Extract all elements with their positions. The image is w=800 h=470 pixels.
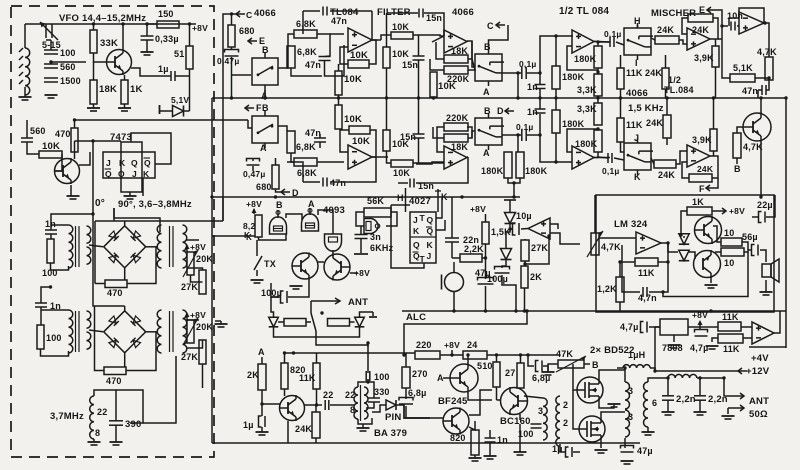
- label B (4093): [276, 200, 283, 210]
- resistor 150: [157, 9, 179, 28]
- mixer1 coupled winding upper: [87, 226, 91, 243]
- label 1u (driver): [243, 420, 254, 430]
- svg-text:1µH: 1µH: [628, 350, 645, 360]
- wire 10 join: [742, 242, 748, 252]
- junction dot 71: [720, 24, 723, 27]
- analog switch B/C (4066): [475, 49, 504, 86]
- ground 2,2n 2: [694, 412, 707, 415]
- svg-text:5,1V: 5,1V: [171, 95, 189, 105]
- label 50 Ohm: [749, 409, 768, 420]
- junction dot 54: [666, 241, 669, 244]
- inductor 1uH: [623, 365, 650, 368]
- wire relay top right: [360, 312, 369, 317]
- wire 56u out: [760, 250, 766, 262]
- label 6KHz: [370, 243, 394, 253]
- junction dot 12: [712, 96, 715, 99]
- svg-text:J: J: [106, 158, 111, 168]
- wire ring2 out: [146, 331, 158, 333]
- label 8 (tank): [95, 428, 100, 438]
- wire 330 btm: [366, 402, 374, 408]
- wire 0,1u mb2: [614, 158, 624, 160]
- wire 10Kv int top: [386, 35, 388, 47]
- wire op1 out to 10K: [381, 35, 391, 40]
- junction dot 58: [759, 96, 762, 99]
- transistor buffer: [55, 158, 80, 184]
- ground bar zener: [159, 105, 161, 114]
- junction dot 42: [315, 403, 318, 406]
- svg-text:6KHz: 6KHz: [370, 243, 394, 253]
- svg-text:10K: 10K: [344, 114, 362, 125]
- capacitor 2,2n (1): [662, 396, 674, 400]
- capacitor 560 (VFO): [44, 64, 58, 68]
- wire cap stack: [50, 40, 52, 50]
- wire 180K top: [555, 36, 557, 66]
- resistor 470 (buffer): [55, 128, 78, 152]
- svg-text:Q: Q: [118, 169, 125, 179]
- label 4066 (mischer): [626, 88, 648, 99]
- junction dot 57: [709, 309, 712, 312]
- wire meter out: [774, 311, 780, 333]
- capacitor 15n shunt lo: [413, 134, 425, 138]
- capacitor 100 (bc): [531, 424, 542, 428]
- op-amp LM324 power: [636, 232, 661, 254]
- arrow F ctl (mischer): [706, 185, 715, 191]
- svg-text:K: K: [427, 240, 434, 250]
- wire 24K drv btm: [315, 438, 317, 443]
- label 100 (bc): [518, 429, 534, 439]
- svg-text:4,7K: 4,7K: [743, 142, 763, 152]
- capacitor 100u (alc): [495, 267, 510, 274]
- svg-text:1K: 1K: [692, 197, 704, 207]
- svg-text:6,8µ: 6,8µ: [408, 388, 427, 398]
- wire ring2 btm stub: [124, 353, 126, 367]
- wire amp3 out: [594, 41, 610, 44]
- svg-text:24K: 24K: [646, 118, 663, 128]
- capacitor 4,7u (reg out): [695, 330, 708, 337]
- label 1n (mixer2): [50, 301, 61, 311]
- svg-text:4,7n: 4,7n: [638, 293, 657, 303]
- wire 27K lm: [524, 239, 526, 240]
- label A (sw BC): [483, 87, 490, 97]
- resistor 11K (driver): [299, 363, 320, 389]
- svg-text:470: 470: [106, 376, 122, 386]
- wire bias chain: [683, 236, 685, 238]
- junction dot 59: [767, 76, 770, 79]
- overline Qbar: [144, 157, 151, 159]
- wire 2,2n2: [699, 378, 701, 396]
- wire int node: [413, 35, 444, 36]
- svg-text:220K: 220K: [446, 113, 469, 123]
- label I below H: [635, 58, 638, 68]
- label 1/2 TL084 (top): [559, 6, 609, 17]
- resistor 10K v (op1): [335, 71, 362, 95]
- pin Q 4027: [427, 215, 434, 225]
- wire gate wiring1: [259, 234, 287, 240]
- label 4,7u out: [690, 343, 709, 353]
- wire 24K to op: [679, 40, 687, 44]
- wire 47n bot2: [319, 142, 321, 148]
- capacitor 47u (fet): [621, 446, 634, 453]
- resistor 24K v (mischer a): [645, 68, 669, 89]
- junction dot 70: [763, 21, 766, 24]
- arrow E: [248, 38, 257, 44]
- svg-text:K: K: [119, 158, 126, 168]
- junction dot 67: [73, 118, 76, 121]
- wire 0,47-680 join: [252, 166, 254, 171]
- wire mixer2 tap: [89, 330, 103, 332]
- wire swE out: [278, 46, 288, 68]
- wire +4V box bottom: [749, 346, 786, 348]
- svg-text:56K: 56K: [367, 196, 384, 206]
- audio ground bus: [402, 310, 786, 312]
- wire 220K right: [468, 59, 475, 70]
- wire K line: [212, 235, 248, 237]
- arrow D: [281, 189, 290, 195]
- wire 33K bottom to base: [94, 53, 108, 62]
- wire 15n shunt lo v: [418, 98, 420, 134]
- wire 1u drv: [560, 444, 565, 452]
- svg-text:PIN: PIN: [385, 412, 401, 423]
- wire BA379 gnd: [362, 424, 364, 428]
- wire 1,2K top: [619, 262, 621, 277]
- wire 11K to op2: [743, 337, 752, 339]
- wire 56K loop1: [356, 212, 364, 226]
- capacitor 47n fb (top): [323, 7, 327, 16]
- svg-text:J: J: [427, 251, 432, 261]
- wire 2K btm: [524, 288, 526, 311]
- transistor audio NPN: [695, 216, 722, 244]
- wire 90deg to LO: [113, 208, 115, 221]
- label C (top left): [246, 10, 252, 20]
- wire op3 out: [372, 156, 388, 158]
- relay coil left: [284, 319, 306, 327]
- label BF245: [438, 396, 468, 407]
- ground 7473: [124, 196, 137, 199]
- resistor 680 (E): [228, 25, 255, 47]
- svg-text:BA 379: BA 379: [374, 428, 407, 439]
- ant gnd stub: [728, 408, 735, 414]
- wire 180K to bus: [513, 183, 515, 197]
- label D: [292, 188, 299, 198]
- svg-text:24K: 24K: [295, 424, 312, 434]
- junction dot 38: [519, 353, 522, 356]
- wire 1u gnd: [261, 427, 263, 432]
- svg-text:15n: 15n: [400, 132, 416, 142]
- wire 0,1u bot junction: [517, 135, 519, 152]
- BA379 coil pri: [354, 387, 358, 419]
- junction dot 68: [91, 212, 94, 215]
- label 6,8u gate: [408, 388, 427, 398]
- svg-text:A: A: [437, 373, 444, 383]
- svg-text:2: 2: [563, 400, 568, 410]
- svg-text:B: B: [276, 200, 283, 210]
- svg-text:150: 150: [158, 9, 174, 19]
- op-amp filter lower-right: [444, 146, 467, 169]
- svg-text:K: K: [634, 172, 641, 182]
- wire lm1 to vol: [550, 233, 580, 244]
- BA379 coil sec: [364, 387, 368, 419]
- svg-text:+4V: +4V: [751, 353, 769, 364]
- junction dot 45: [484, 256, 487, 259]
- wire 820 btm: [474, 455, 476, 458]
- resistor 11K (meter bot): [718, 334, 743, 354]
- junction dot 15: [274, 195, 277, 198]
- wire tank2 loop btm: [41, 349, 69, 356]
- svg-text:180K: 180K: [562, 72, 585, 82]
- gate A stem: [308, 208, 312, 215]
- wire B bias: [584, 363, 590, 365]
- wire tank to mixers: [143, 390, 176, 423]
- wire 10Kv lower: [338, 98, 340, 105]
- label 10n: [727, 11, 743, 21]
- wire tx pair: [318, 261, 324, 263]
- wire 6,8u gate btm: [406, 406, 430, 418]
- label BD522 part: [0, 0, 1, 1]
- wire 470m1 right: [127, 248, 156, 284]
- pin T2 4027: [420, 254, 426, 264]
- wire amp3 fb btm: [597, 68, 599, 74]
- wire 22u leads: [752, 216, 758, 218]
- wire 6,8K bot join: [291, 153, 294, 162]
- junction dot 49: [523, 309, 526, 312]
- label A (txd): [437, 373, 444, 383]
- mixer2 coupled winding upper: [87, 311, 91, 328]
- wire A emitter down: [468, 392, 492, 400]
- svg-text:BC160: BC160: [500, 416, 531, 427]
- junction dot 25: [554, 34, 557, 37]
- label A (driver): [258, 347, 265, 357]
- svg-text:TX: TX: [264, 259, 276, 269]
- wire 3,3K bot top: [597, 98, 599, 103]
- label 2b: [563, 418, 568, 428]
- ground 820: [469, 458, 482, 461]
- wire 27K fb: [525, 236, 549, 264]
- wire tank2 top: [41, 309, 69, 311]
- capacitor 47n (agc): [762, 85, 766, 95]
- label PIN: [385, 412, 401, 423]
- label 1500: [60, 76, 81, 86]
- label H ctl: [634, 16, 641, 26]
- wire node to opamp: [325, 45, 345, 76]
- junction dot 7: [538, 96, 541, 99]
- junction dot 50: [514, 309, 517, 312]
- resistor 27 (txd): [505, 363, 524, 388]
- junction dot 2: [337, 96, 340, 99]
- wire 1uH right: [650, 368, 655, 371]
- label A (sw BD): [483, 148, 490, 158]
- junction dot 20: [145, 22, 148, 25]
- label 6,8u txd: [532, 373, 551, 383]
- junction dot 17: [460, 195, 463, 198]
- wire fb bot left: [287, 162, 303, 182]
- resistor 3,9K v (mischer top): [694, 46, 719, 67]
- capacitor 0,1u (bot): [522, 129, 526, 141]
- wire 20K m1: [191, 275, 203, 282]
- wire 2K btm: [261, 390, 263, 416]
- resistor 11K v (mischer): [617, 68, 643, 89]
- wire 24K mb2: [666, 138, 668, 145]
- pot 20K (mixer2): [183, 318, 198, 345]
- svg-text:15n: 15n: [426, 13, 442, 23]
- wire 18K loop: [436, 42, 444, 59]
- wire op3 wiring: [317, 161, 344, 163]
- mixer2 out core: [170, 311, 174, 352]
- wire 10 bot: [715, 251, 721, 253]
- wire m2 out top: [187, 319, 200, 321]
- NAND gate C (4093): [325, 234, 342, 251]
- arrow ANT: [311, 298, 340, 304]
- resistor 18K (top): [444, 46, 468, 63]
- wire agc tr c: [760, 98, 762, 113]
- wire signal down lo: [540, 135, 572, 162]
- wire 24K mb: [666, 98, 668, 115]
- wire K resistor: [248, 235, 255, 237]
- label 1n bf: [497, 435, 508, 445]
- label A (4093): [308, 199, 315, 209]
- wire txd rail seg: [284, 352, 415, 354]
- label 100u alc: [487, 274, 508, 284]
- switch TX: [254, 252, 262, 276]
- gnd lead m2: [215, 321, 221, 324]
- wire op2 in: [432, 36, 444, 42]
- label 6 out: [652, 398, 657, 408]
- label +8V mixer2: [190, 310, 206, 320]
- svg-text:47µ: 47µ: [637, 446, 653, 456]
- junction dot 1: [263, 96, 266, 99]
- junction dot 3: [385, 96, 388, 99]
- wire 15n fb lo: [398, 182, 408, 184]
- junction dot 39: [526, 353, 529, 356]
- label 3,7MHz: [50, 411, 84, 422]
- wire 7473 left feed: [75, 140, 122, 142]
- wire coil leads: [278, 321, 284, 323]
- label 22n: [463, 235, 479, 245]
- label 4,7n: [638, 293, 657, 303]
- label 0,47u (E): [217, 56, 239, 66]
- resistor 10K h (interstage lo): [391, 160, 413, 178]
- label 4066 (top left): [254, 8, 276, 19]
- ground bc160: [514, 452, 527, 455]
- svg-text:390: 390: [125, 419, 141, 430]
- wire 22 to tr: [330, 404, 355, 406]
- svg-text:11K: 11K: [626, 68, 643, 78]
- resistor 24K (mischer in top): [655, 25, 679, 44]
- wire 3n top: [360, 226, 362, 234]
- wire +8V micamp: [485, 214, 487, 222]
- wire 0,33u top: [146, 24, 148, 36]
- junction dot 69: [49, 285, 52, 288]
- ground 47u fet: [621, 461, 634, 464]
- mixer1 secondary coil: [183, 225, 187, 268]
- resistor 18K: [90, 80, 117, 104]
- wire 24K mb to op: [676, 151, 687, 164]
- label 100u (tx): [261, 288, 282, 298]
- label A (sw F): [260, 143, 267, 153]
- wire 4,7K B top: [737, 127, 743, 133]
- wire bc160 e: [519, 414, 521, 420]
- wire 10Kv op2: [433, 97, 435, 98]
- junction dot 21: [188, 22, 191, 25]
- junction dot 52: [452, 309, 455, 312]
- resistor 10 (top): [721, 228, 742, 246]
- arrow C (4066): [236, 11, 245, 17]
- wire gate down: [332, 250, 334, 256]
- wire VFO top rail: [25, 23, 181, 25]
- svg-text:24K: 24K: [658, 170, 675, 180]
- wire coil top: [24, 24, 26, 48]
- svg-text:47n: 47n: [330, 178, 346, 188]
- label 100 (pin): [374, 372, 390, 382]
- wire trimmer join: [46, 39, 51, 41]
- svg-text:F: F: [699, 184, 705, 194]
- svg-text:0,47µ: 0,47µ: [217, 56, 239, 66]
- wire 11K drv top: [316, 353, 318, 363]
- wire ring1 btm stub: [124, 268, 126, 280]
- label 8 coil: [350, 405, 355, 415]
- label 0,1u mischer bot: [602, 166, 620, 176]
- transistor driver Q: [280, 395, 305, 421]
- resistor 220K (bot): [444, 113, 469, 131]
- wire drv tr top: [524, 396, 543, 398]
- capacitor 6,8u (txd): [536, 361, 543, 372]
- wire agc fb top: [739, 8, 764, 23]
- wire 47n agc left: [757, 90, 759, 98]
- svg-text:1K: 1K: [130, 84, 143, 95]
- pin Qbar2 (7473): [105, 169, 112, 179]
- capacitor 1n (mixer1): [45, 230, 57, 234]
- wire top rail to +8V: [181, 23, 196, 25]
- svg-text:10K: 10K: [352, 136, 370, 147]
- output transformer sec: [644, 382, 649, 427]
- label B (agc): [734, 164, 741, 174]
- op-amp TL084 third (bot): [572, 146, 594, 169]
- mixer2 core: [76, 311, 80, 352]
- label 3 (driver tr): [538, 406, 543, 416]
- wire sw H out: [651, 38, 655, 40]
- resistor 1K (audio): [687, 197, 712, 215]
- wire 1n bot v2: [539, 114, 541, 135]
- wire 2,2K right: [482, 257, 486, 259]
- wire coil top: [358, 382, 368, 387]
- wire 3,3K btm: [597, 96, 599, 98]
- svg-text:10µ: 10µ: [516, 211, 532, 221]
- label 0,33u: [155, 34, 179, 44]
- junction dot 30: [596, 127, 599, 130]
- resistor 10K v (interstage lo): [383, 130, 409, 151]
- svg-text:47K: 47K: [556, 349, 573, 359]
- wire C net vertical: [223, 14, 236, 221]
- wire 5,1K left: [722, 26, 730, 78]
- wire 47K left: [548, 364, 558, 372]
- label BA 379: [374, 428, 407, 439]
- wire 10K v: [338, 64, 340, 71]
- svg-text:10: 10: [724, 258, 734, 268]
- transistor VFO osc: [107, 49, 132, 75]
- wire 2,2n2 g: [699, 400, 701, 412]
- wire amp4 fb btm: [594, 152, 598, 158]
- junction dot 47: [523, 262, 526, 265]
- wire 0,1u right: [527, 72, 540, 74]
- svg-text:24K: 24K: [645, 68, 662, 78]
- label 15n shunt top: [402, 60, 418, 70]
- capacitor 1n (mixer2): [35, 303, 47, 307]
- svg-text:10: 10: [724, 228, 734, 238]
- wire 6,8K h right: [317, 34, 330, 57]
- wire tank1 loop btm: [51, 263, 69, 270]
- label ANT: [348, 297, 368, 308]
- svg-text:Q: Q: [413, 240, 420, 250]
- svg-text:560: 560: [60, 62, 76, 72]
